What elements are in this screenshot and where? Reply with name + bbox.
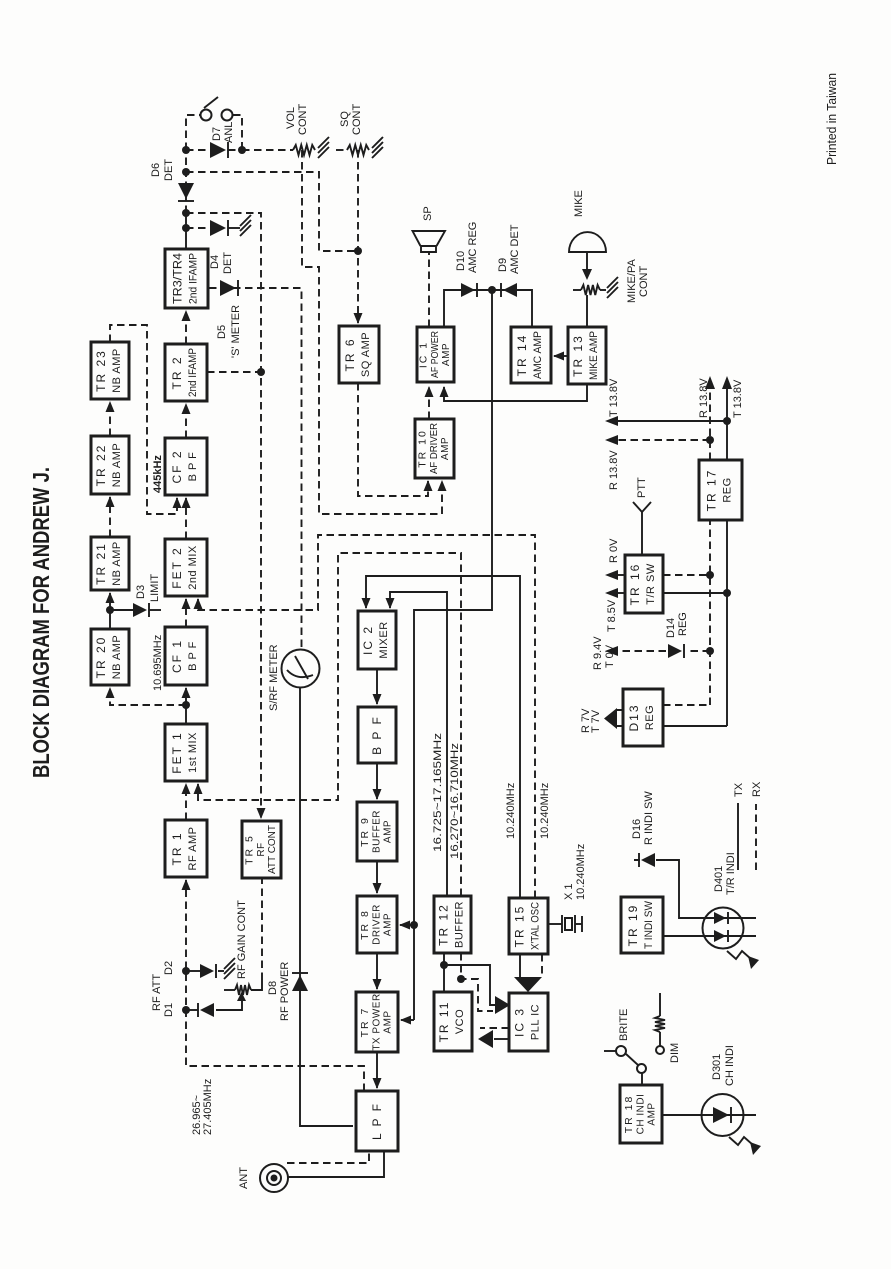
svg-text:27.405MHz: 27.405MHz <box>202 1079 214 1135</box>
wire TR20 to TR21 <box>109 593 111 629</box>
diode D5 S METER <box>220 280 238 296</box>
arrow into TR11 bottom <box>478 1030 493 1048</box>
wire D2 ground stub <box>218 970 224 972</box>
svg-text:R 13.8V: R 13.8V <box>608 450 620 490</box>
wire ANL switch loop <box>186 115 242 150</box>
svg-text:TX: TX <box>733 782 745 797</box>
svg-text:IC 2: IC 2 <box>361 625 375 655</box>
wire TR23 noise gate to CF2 <box>110 325 177 514</box>
block TR15 XTAL OSC <box>509 898 548 954</box>
block TR10 AF DRIVER AMP <box>415 419 454 478</box>
block FET1 1st MIX <box>165 724 207 781</box>
diode D401 upper <box>714 912 728 924</box>
svg-text:D2: D2 <box>163 961 175 975</box>
legend RX line <box>755 804 757 870</box>
arrow R rail end <box>705 376 715 389</box>
svg-text:T 0V: T 0V <box>604 644 616 668</box>
svg-text:10.240MHz: 10.240MHz <box>575 844 587 900</box>
svg-text:D8: D8 <box>267 981 279 995</box>
svg-text:NB AMP: NB AMP <box>111 635 123 680</box>
potentiometer MIKE/PA CONT <box>573 285 606 295</box>
block CF2 BPF <box>165 438 207 495</box>
wire D13 R stub <box>663 704 710 706</box>
svg-text:NB AMP: NB AMP <box>111 541 123 586</box>
svg-text:FET 2: FET 2 <box>170 546 184 588</box>
wire T rail solid <box>726 389 728 726</box>
wire SQ wiper to TR6 <box>357 150 359 323</box>
svg-text:TR 19: TR 19 <box>626 904 640 947</box>
svg-text:TR 16: TR 16 <box>628 563 642 606</box>
block D13 REG <box>623 689 663 746</box>
wire TR16 R0V stub <box>618 574 625 576</box>
node D3 junction <box>106 606 114 614</box>
svg-text:D3: D3 <box>135 585 147 599</box>
wire D13 T stub <box>663 725 727 727</box>
wire TR8 to TR7 <box>376 953 378 989</box>
arrow T13.8V up <box>605 416 618 426</box>
svg-text:TR 20: TR 20 <box>94 636 108 679</box>
block TR22 NB AMP <box>91 436 129 494</box>
svg-text:AMP: AMP <box>441 343 452 366</box>
node TR16 R rail junction <box>706 571 714 579</box>
svg-text:REG: REG <box>644 705 656 730</box>
block FET2 2nd MIX <box>165 539 207 596</box>
svg-text:BUFFER: BUFFER <box>372 810 383 853</box>
block TR16 T/R SW <box>625 555 663 613</box>
wire 16.270MHz LO to FET1 <box>198 553 461 896</box>
svg-text:TR 10: TR 10 <box>417 429 429 468</box>
wire AGC line dotC to TR5 <box>186 213 261 818</box>
node AGC TR2 junction <box>257 368 265 376</box>
svg-text:D5: D5 <box>216 325 228 339</box>
svg-text:CONT: CONT <box>638 266 650 297</box>
wire R13.8V branch <box>618 439 710 441</box>
svg-text:AMC REG: AMC REG <box>467 222 479 273</box>
block TR13 MIKE AMP <box>568 327 606 384</box>
svg-text:D301: D301 <box>711 1054 723 1080</box>
svg-text:AF POWER: AF POWER <box>430 331 441 378</box>
block IC2 MIXER <box>358 611 396 669</box>
svg-text:TR 22: TR 22 <box>94 444 108 487</box>
svg-text:DET: DET <box>163 159 175 181</box>
svg-text:TR 14: TR 14 <box>515 334 529 377</box>
node D14 junction <box>706 647 714 655</box>
arrow T 8.5V <box>605 588 618 598</box>
svg-text:SQ AMP: SQ AMP <box>360 332 372 377</box>
wire detector bus from TR3/TR4 <box>185 150 187 213</box>
wire D7 branch <box>186 149 242 151</box>
svg-text:2nd MIX: 2nd MIX <box>187 545 199 590</box>
wire VCO 16.725MHz to IC2 <box>390 592 447 896</box>
arrow T rail end <box>722 376 732 389</box>
arrow R13.8V up <box>605 435 618 445</box>
svg-text:AMP: AMP <box>383 913 394 936</box>
wire CF2 to TR2 <box>185 404 187 438</box>
svg-text:D13: D13 <box>627 703 641 731</box>
svg-text:SP: SP <box>422 206 434 221</box>
wire TR21 to TR22 <box>109 497 111 537</box>
wire D4 to ground <box>228 227 240 229</box>
svg-text:TR 1: TR 1 <box>170 831 184 865</box>
wire detector bus solid stub <box>185 213 187 249</box>
svg-text:REG: REG <box>677 612 689 636</box>
wire IC1 to D10 bus <box>444 290 532 327</box>
svg-text:MIKE/PA: MIKE/PA <box>626 259 638 303</box>
wire TR15 10.240MHz LO to FET2 <box>198 535 535 898</box>
svg-text:AMC AMP: AMC AMP <box>532 331 544 379</box>
svg-text:NB AMP: NB AMP <box>111 348 123 393</box>
LED D301 CH INDI <box>702 1094 744 1136</box>
wire VCO to IC3 dashed <box>461 953 493 1011</box>
LED D401 T/R INDI <box>703 908 744 949</box>
svg-text:CH INDI: CH INDI <box>724 1045 736 1086</box>
svg-text:RX: RX <box>751 781 763 797</box>
svg-text:NB AMP: NB AMP <box>111 443 123 488</box>
wire TR7 to LPF <box>376 1052 378 1088</box>
block TR14 AMC AMP <box>511 327 551 383</box>
svg-text:X 1: X 1 <box>563 883 575 900</box>
svg-text:10.240MHz: 10.240MHz <box>539 783 551 839</box>
svg-text:IC 3: IC 3 <box>513 1007 527 1037</box>
diode D3 LIMIT <box>133 603 149 617</box>
wire VCO to IC3 solid <box>444 965 496 1005</box>
svg-text:TR 2: TR 2 <box>170 355 184 389</box>
arrow R 0V <box>605 570 618 580</box>
arrow into IC3 top <box>495 996 510 1014</box>
svg-text:AMP: AMP <box>440 437 451 460</box>
diode D301 <box>713 1107 731 1123</box>
svg-text:10.695MHz: 10.695MHz <box>152 635 164 691</box>
wire TR18 to LED <box>662 1114 756 1116</box>
light arrow D401 <box>727 951 759 969</box>
svg-text:VCO: VCO <box>454 1009 466 1034</box>
switch D7 ANL bypass contacts <box>201 97 233 121</box>
wire TR15 to IC3 solid <box>519 954 521 977</box>
block TR19 T INDI SW <box>621 897 663 953</box>
svg-text:D10: D10 <box>455 251 467 271</box>
node SQ wiper junction <box>354 247 362 255</box>
svg-text:T INDI SW: T INDI SW <box>643 900 655 949</box>
wire SQ stub <box>336 149 347 151</box>
svg-text:16.270~16.710MHz: 16.270~16.710MHz <box>449 743 461 859</box>
svg-text:ANT: ANT <box>238 1167 250 1189</box>
node ANL lower junction <box>238 146 246 154</box>
wire D5 branch from TR3/TR4 <box>209 288 302 647</box>
svg-text:R 9.4V: R 9.4V <box>592 636 604 670</box>
arrow R9.4V T0V up <box>605 646 618 656</box>
block LPF <box>356 1091 398 1151</box>
wire D16 to LED <box>703 917 756 919</box>
wire D16 line <box>634 860 703 918</box>
node T13.8V branch <box>723 417 731 425</box>
svg-text:TX POWER: TX POWER <box>372 993 383 1050</box>
arrow mike output <box>582 253 592 280</box>
wire NB tap to TR20 <box>110 688 186 705</box>
svg-text:CF 1: CF 1 <box>170 639 184 673</box>
block TR20 NB AMP <box>91 629 129 685</box>
diode D9 AMC DET <box>501 283 517 297</box>
wire TR10 to IC1 <box>428 387 430 419</box>
svg-text:B P F: B P F <box>187 452 199 482</box>
svg-text:MIKE AMP: MIKE AMP <box>588 331 600 380</box>
diode D7 ANL <box>210 142 228 158</box>
block TR12 BUFFER <box>434 896 471 953</box>
wire AMC into TR7 <box>401 1019 414 1021</box>
node det bus dot D <box>182 224 190 232</box>
svg-text:CONT: CONT <box>351 104 363 135</box>
block TR23 NB AMP <box>91 342 129 399</box>
wire TR9 to TR8 <box>376 861 378 893</box>
block TR9 BUFFER AMP <box>357 802 397 861</box>
wire FET2 to CF2 <box>185 498 187 539</box>
wire ANT RX dashed <box>287 1151 369 1163</box>
svg-text:D4: D4 <box>209 255 221 269</box>
block TR21 NB AMP <box>91 537 129 590</box>
wire RF GAIN to TR5 <box>261 878 263 980</box>
svg-text:CH INDI: CH INDI <box>636 1094 647 1135</box>
svg-text:LIMIT: LIMIT <box>149 574 161 602</box>
svg-text:TR 17: TR 17 <box>705 469 719 512</box>
block CF1 BPF <box>165 627 207 685</box>
svg-text:RF GAIN CONT: RF GAIN CONT <box>236 900 248 979</box>
legend TX line <box>737 803 739 870</box>
wire D3 cathode stub <box>149 609 161 611</box>
svg-text:BRITE: BRITE <box>618 1009 630 1041</box>
wire TR16 to R rail <box>663 574 710 576</box>
svg-text:'S' METER: 'S' METER <box>230 305 242 358</box>
block BPF <box>358 707 396 763</box>
wire TR6 to TR10 <box>358 383 428 496</box>
wire D4 branch <box>186 227 209 229</box>
svg-text:D6: D6 <box>150 163 162 177</box>
ground at MIKE/PA CONT <box>607 277 618 298</box>
svg-text:TR 15: TR 15 <box>513 905 527 948</box>
diode D8 RF POWER <box>292 973 308 991</box>
wire BPF to TR9 <box>376 763 378 799</box>
svg-text:TR 9: TR 9 <box>359 816 371 847</box>
svg-text:DRIVER: DRIVER <box>372 904 383 945</box>
svg-text:MIXER: MIXER <box>378 621 390 658</box>
wire TR22 to TR23 <box>109 402 111 436</box>
svg-text:AMP: AMP <box>383 820 394 843</box>
diode D4 DET <box>210 220 228 236</box>
wire T13.8V branch <box>618 420 727 422</box>
svg-text:D9: D9 <box>497 258 509 272</box>
svg-text:D7: D7 <box>211 127 223 141</box>
node R13.8V branch <box>706 436 714 444</box>
connector PTT <box>633 502 651 555</box>
wire VOL wiper to TR10 <box>302 150 442 514</box>
svg-text:10.240MHz: 10.240MHz <box>505 783 517 839</box>
diode D1 <box>198 1003 214 1017</box>
diode D401 lower <box>714 930 728 942</box>
svg-text:X'TAL OSC: X'TAL OSC <box>530 902 542 950</box>
wire TR13 to mike pot <box>586 295 588 327</box>
wire TR16 to T rail <box>663 592 727 594</box>
svg-text:S/RF METER: S/RF METER <box>268 644 280 711</box>
crystal X1 10.240MHz <box>548 915 582 933</box>
wire AMC control line <box>414 290 492 1020</box>
svg-text:RF AMP: RF AMP <box>187 827 199 871</box>
wire TR15 10.240MHz to IC2 <box>366 576 520 898</box>
block TR1 RF AMP <box>165 820 207 877</box>
block TR17 REG <box>699 460 742 520</box>
svg-text:T/R INDI: T/R INDI <box>725 852 737 895</box>
wire D14 branch upper <box>618 650 666 652</box>
svg-text:VOL: VOL <box>285 107 297 129</box>
block IC3 PLL IC <box>509 993 548 1051</box>
block TR2 2nd IF AMP <box>165 344 207 401</box>
svg-text:D16: D16 <box>631 819 643 839</box>
block TR11 VCO <box>434 992 472 1051</box>
diode D14 REG <box>668 644 684 658</box>
svg-text:TR 8: TR 8 <box>359 909 371 940</box>
svg-text:T 8.5V: T 8.5V <box>606 599 618 632</box>
node det bus dot B <box>182 168 190 176</box>
svg-text:TR 5: TR 5 <box>244 834 256 865</box>
svg-text:D1: D1 <box>163 1003 175 1017</box>
wire TR19 to LED <box>663 935 756 937</box>
node TR12 dashed junction <box>457 975 465 983</box>
node D10 D9 junction <box>488 286 496 294</box>
node AMC TR8 branch <box>410 921 418 929</box>
svg-text:B P F: B P F <box>187 641 199 671</box>
wire IC3 to TR11 control dashed <box>480 1027 509 1029</box>
ground at VOL CONT <box>318 137 329 158</box>
svg-text:PTT: PTT <box>636 477 648 498</box>
wire to VOL CONT <box>242 149 293 151</box>
wire S/RF meter line to LPF <box>300 688 353 1126</box>
wire D3 stub <box>110 609 133 611</box>
svg-text:MIKE: MIKE <box>573 190 585 217</box>
ground at SQ CONT <box>372 137 383 158</box>
node FET1-CF1 junction <box>182 701 190 709</box>
svg-text:TR 11: TR 11 <box>437 1001 451 1043</box>
block TR8 DRIVER AMP <box>357 896 397 953</box>
wire TR12 TR11 link <box>443 953 445 992</box>
node TR11 TR12 junction <box>440 961 448 969</box>
block TR7 TX POWER AMP <box>356 992 398 1052</box>
microphone MIKE <box>569 232 606 252</box>
arrow RF GAIN wiper <box>237 992 246 1001</box>
svg-text:T 13.8V: T 13.8V <box>732 379 744 418</box>
svg-text:T/R SW: T/R SW <box>645 563 657 605</box>
svg-text:Printed in Taiwan: Printed in Taiwan <box>824 73 839 165</box>
arrow into IC3 right <box>514 977 542 992</box>
svg-text:TR 12: TR 12 <box>437 903 451 946</box>
switch BRITE <box>604 1046 646 1085</box>
wire TR1 to FET1 <box>185 784 187 820</box>
wire CF1 to FET2 <box>185 599 187 627</box>
svg-text:DIM: DIM <box>669 1043 681 1063</box>
svg-text:FET 1: FET 1 <box>170 731 184 773</box>
svg-text:BLOCK DIAGRAM FOR ANDREW J.: BLOCK DIAGRAM FOR ANDREW J. <box>28 467 54 778</box>
node D2 junction <box>182 967 190 975</box>
block TR3/TR4 2nd IF AMP <box>165 249 208 308</box>
diode D10 AMC REG <box>461 283 477 297</box>
node det bus dot C <box>182 209 190 217</box>
wire SQ det path <box>186 172 355 251</box>
wire TR2 to TR3/TR4 <box>185 311 187 344</box>
ground at D2 <box>224 958 235 979</box>
block IC1 AF POWER AMP <box>417 327 454 382</box>
wire IC2 to BPF <box>376 669 378 704</box>
wire ANT TX solid <box>288 1151 384 1177</box>
svg-text:TR 13: TR 13 <box>571 334 585 377</box>
svg-text:T 13.8V: T 13.8V <box>608 378 620 417</box>
wire IC3 to TR11 control solid <box>494 1038 509 1040</box>
svg-text:445kHz: 445kHz <box>152 455 164 493</box>
wire D13 output stubs <box>617 710 623 726</box>
svg-text:R 0V: R 0V <box>608 538 620 563</box>
potentiometer SQ CONT <box>347 145 369 155</box>
wire AMC into TR8 <box>400 924 414 926</box>
svg-text:2nd IFAMP: 2nd IFAMP <box>187 348 199 397</box>
diode D2 <box>200 964 216 978</box>
wire D14 branch lower <box>687 650 710 652</box>
node D1 junction <box>182 1006 190 1014</box>
svg-text:TR 7: TR 7 <box>359 1007 371 1038</box>
speaker SP <box>413 231 446 252</box>
wire FET1 to CF1 <box>185 688 187 724</box>
node TR16 T rail junction <box>723 589 731 597</box>
svg-text:R INDI SW: R INDI SW <box>643 791 655 845</box>
wire TR15 to IC3 dashed <box>541 954 543 977</box>
wire D2 stub <box>186 970 200 972</box>
resistor DIM <box>655 993 665 1054</box>
svg-text:CF 2: CF 2 <box>170 449 184 483</box>
svg-text:D401: D401 <box>713 866 725 892</box>
light arrow D301 <box>729 1137 761 1155</box>
arrow D13 output <box>604 708 617 729</box>
svg-text:D14: D14 <box>665 618 677 638</box>
potentiometer VOL CONT <box>293 145 315 155</box>
wire LPF to TR1 RX line <box>186 880 364 1091</box>
svg-text:AMP: AMP <box>383 1010 394 1033</box>
svg-text:T 7V: T 7V <box>590 709 602 733</box>
diode D6 DET <box>178 183 194 201</box>
svg-text:TR3/TR4: TR3/TR4 <box>171 253 185 304</box>
block TR5 RF ATT CONT <box>242 821 281 878</box>
block TR6 SQ AMP <box>339 326 379 383</box>
svg-text:RF POWER: RF POWER <box>279 962 291 1021</box>
svg-text:ANL: ANL <box>223 122 235 143</box>
svg-text:TR 18: TR 18 <box>623 1095 635 1134</box>
svg-text:BUFFER: BUFFER <box>454 901 466 948</box>
svg-text:IC 1: IC 1 <box>418 341 430 368</box>
svg-text:RF ATT: RF ATT <box>151 974 163 1011</box>
svg-text:TR 21: TR 21 <box>94 542 108 585</box>
svg-text:TR 6: TR 6 <box>343 337 357 371</box>
svg-text:REG: REG <box>722 477 734 502</box>
svg-text:TR 23: TR 23 <box>94 349 108 392</box>
connector ANT <box>260 1164 288 1192</box>
svg-text:AMP: AMP <box>647 1102 658 1125</box>
diode D16 R INDI SW <box>639 853 655 867</box>
node det bus dot A <box>182 146 190 154</box>
wire D1 to RF GAIN wiper <box>216 1001 242 1010</box>
svg-text:CONT: CONT <box>297 104 309 135</box>
ground at D4 <box>240 215 251 236</box>
svg-text:AMC DET: AMC DET <box>509 224 521 274</box>
meter S/RF METER <box>282 650 320 688</box>
svg-text:B P F: B P F <box>370 715 384 755</box>
svg-text:RF: RF <box>256 842 267 856</box>
svg-text:ATT CONT: ATT CONT <box>267 825 278 874</box>
svg-text:R 13.8V: R 13.8V <box>698 378 710 418</box>
wire TR13 to IC1 <box>444 384 587 401</box>
wire D1 stub <box>186 1009 198 1011</box>
